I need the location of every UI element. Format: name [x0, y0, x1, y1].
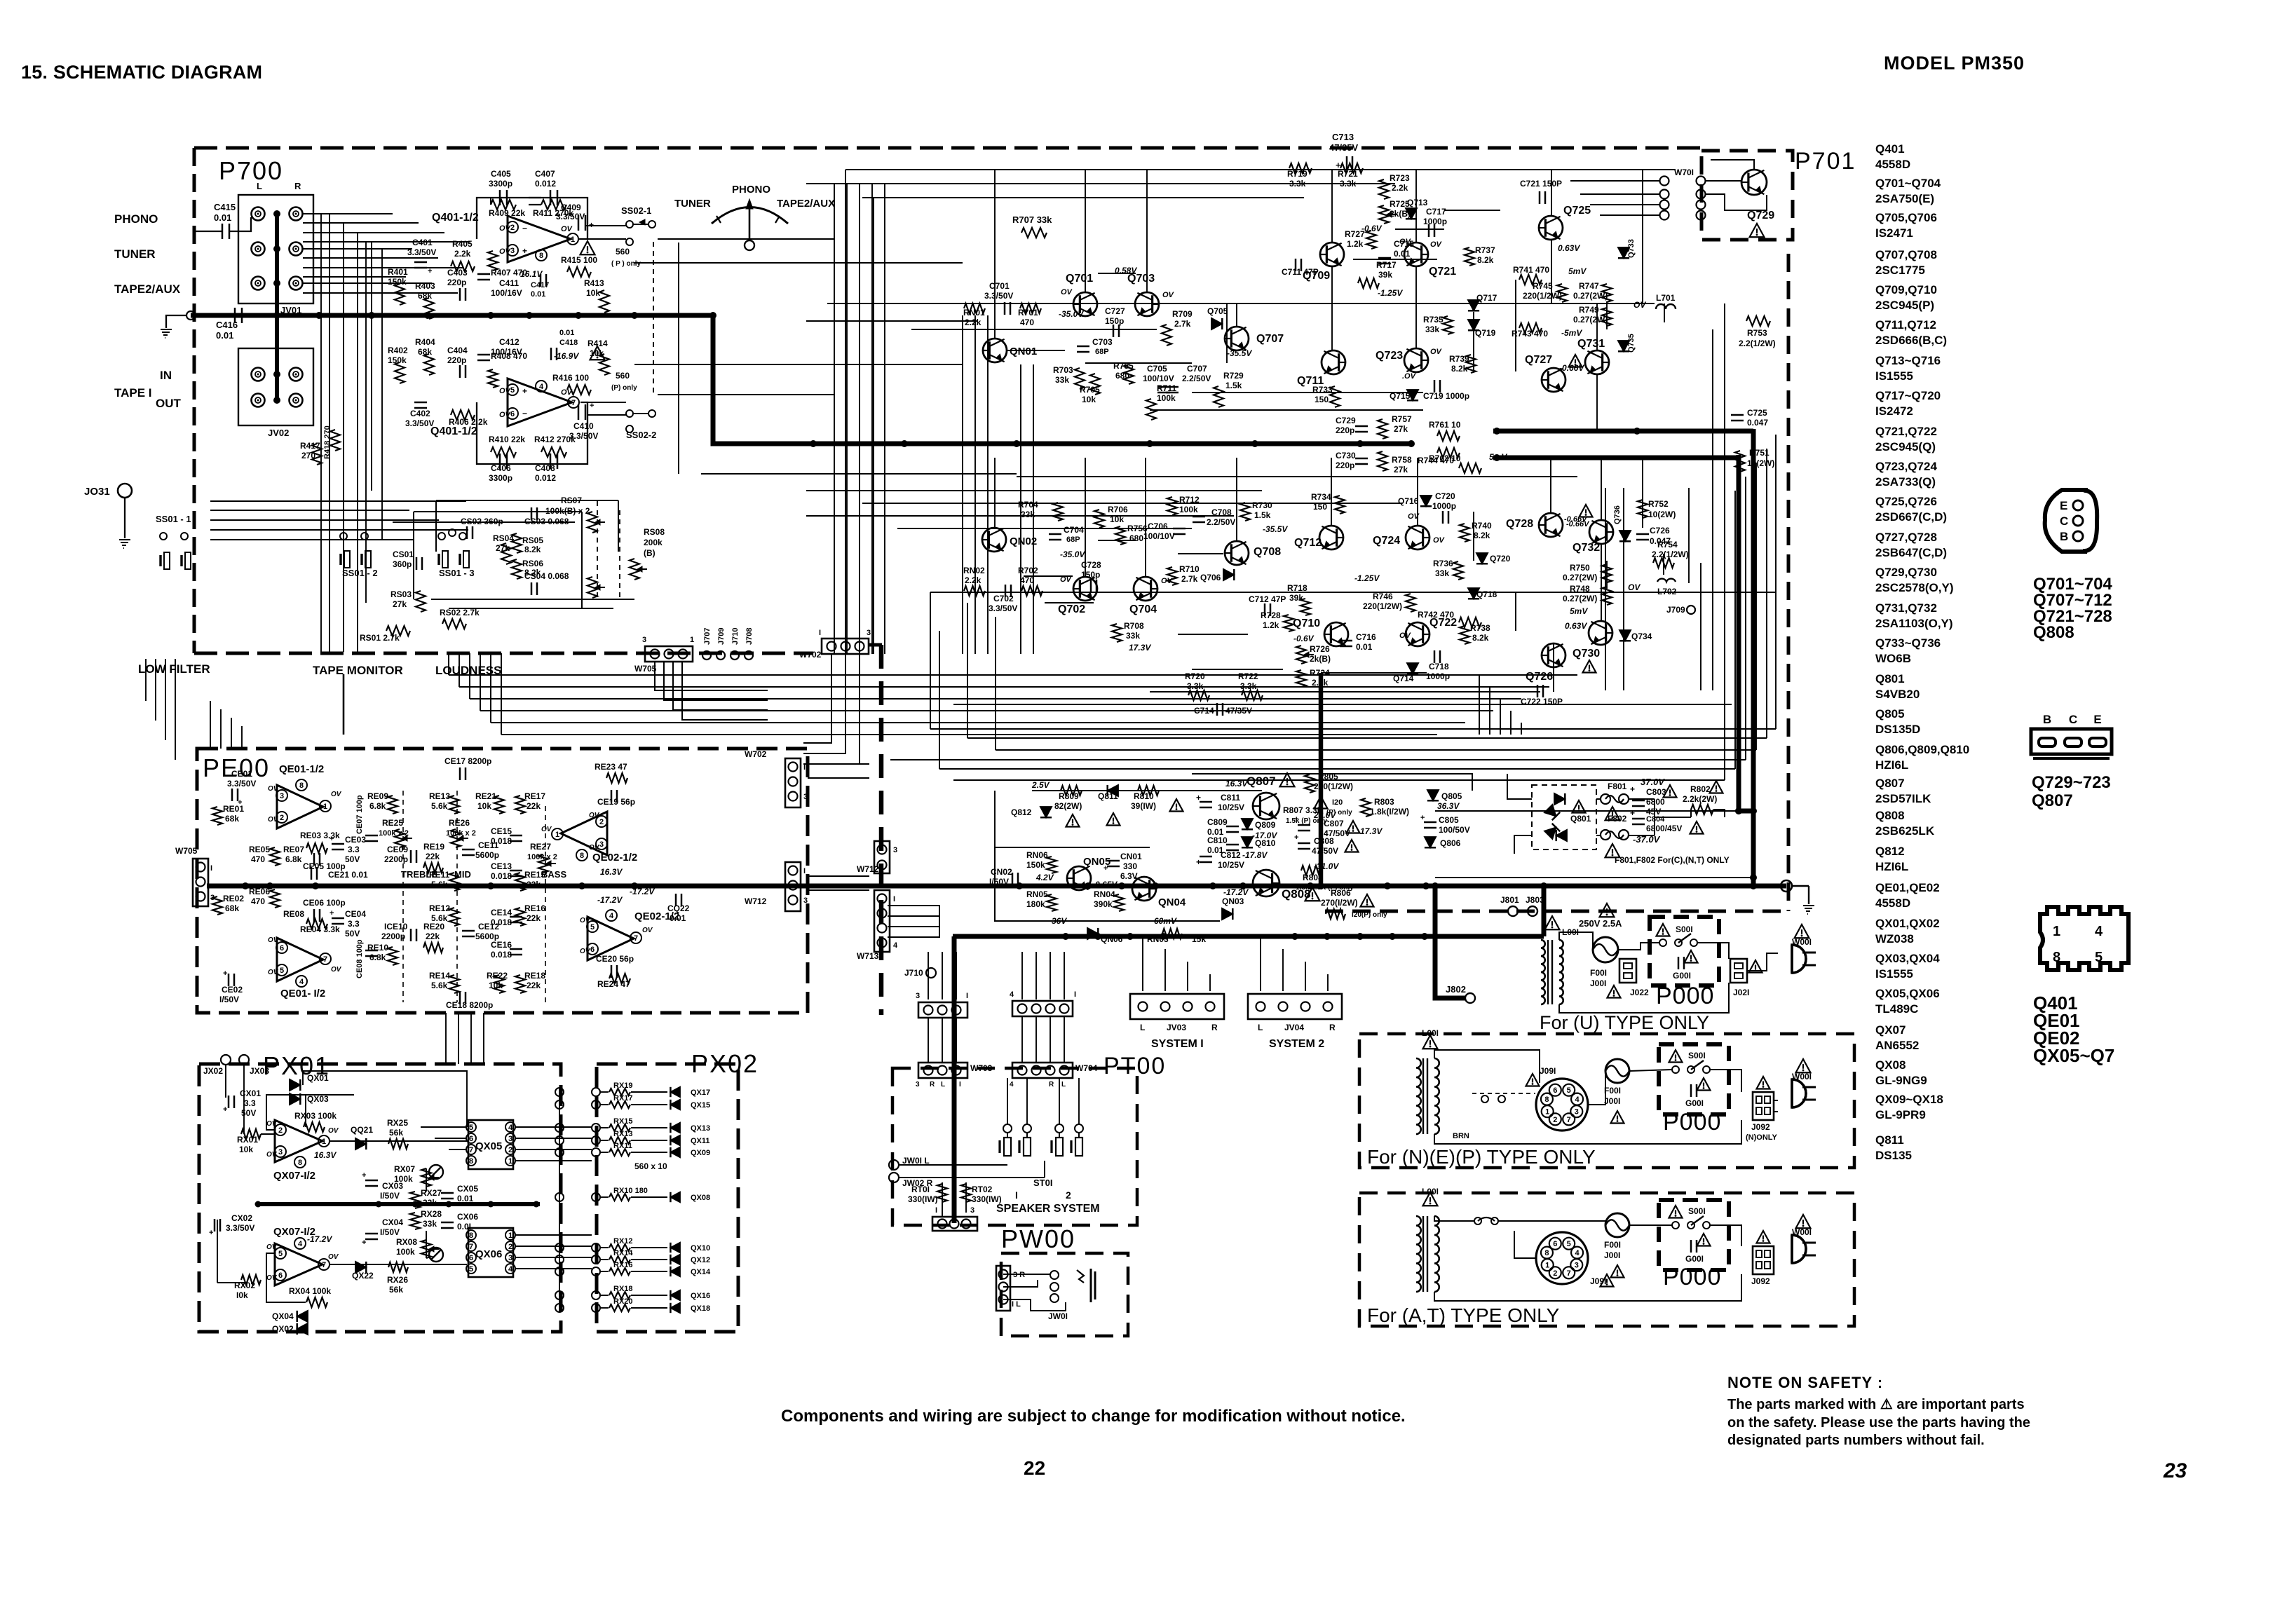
svg-text:3: 3: [803, 793, 808, 801]
svg-text:+: +: [1196, 793, 1201, 803]
P000 box (U): [1650, 917, 1719, 985]
svg-text:2SC2578(O,Y): 2SC2578(O,Y): [1875, 581, 1954, 594]
svg-text:4: 4: [299, 978, 304, 986]
svg-text:1: 1: [508, 1231, 512, 1240]
svg-text:2.2k(2W): 2.2k(2W): [1683, 794, 1717, 804]
svg-text:Q808: Q808: [1875, 809, 1905, 822]
svg-text:10k: 10k: [586, 288, 600, 298]
svg-text:BRN: BRN: [1453, 1132, 1469, 1140]
gang dashed TREBLE: [402, 791, 404, 1002]
connector JW01 L: [889, 1160, 899, 1170]
svg-text:W00I: W00I: [1792, 1072, 1812, 1081]
svg-text:CE14: CE14: [491, 908, 512, 917]
svg-text:QX08: QX08: [691, 1194, 710, 1202]
wire feedback lower: [477, 402, 587, 464]
svg-text:RN03: RN03: [1147, 934, 1169, 944]
svg-text:C810: C810: [1207, 835, 1228, 845]
svg-text:R730: R730: [1252, 500, 1272, 510]
svg-text:8: 8: [1544, 1249, 1549, 1257]
svg-text:Q733: Q733: [1627, 239, 1636, 258]
svg-text:GL-9NG9: GL-9NG9: [1875, 1074, 1927, 1087]
svg-text:100/10V: 100/10V: [1143, 374, 1174, 383]
svg-text:J802: J802: [1446, 984, 1466, 995]
svg-text:TUNER: TUNER: [674, 198, 711, 210]
svg-text:Components and wiring are subj: Components and wiring are subject to cha…: [781, 1407, 1406, 1426]
svg-text:J092: J092: [1751, 1276, 1770, 1286]
svg-text:2.2/50V: 2.2/50V: [1182, 374, 1211, 383]
svg-text:TAPE I: TAPE I: [114, 386, 152, 400]
power section For(A,T) border: [1359, 1193, 1854, 1326]
connector J801 on border: [1508, 906, 1518, 916]
svg-text:S00I: S00I: [1688, 1206, 1706, 1216]
svg-text:68P: 68P: [1066, 535, 1080, 544]
svg-text:+: +: [223, 969, 227, 978]
svg-text:Q722: Q722: [1429, 617, 1457, 629]
svg-text:8: 8: [469, 1231, 473, 1240]
svg-text:2: 2: [1066, 1189, 1071, 1201]
transistor Q731: [1585, 350, 1609, 374]
svg-text:C805: C805: [1439, 815, 1459, 825]
svg-text:3.3k: 3.3k: [1240, 681, 1257, 691]
connector J092 (AT): [1753, 1246, 1774, 1274]
svg-text:6.3V: 6.3V: [1120, 871, 1138, 881]
svg-text:I/50V: I/50V: [380, 1191, 400, 1201]
svg-text:JX03: JX03: [250, 1066, 269, 1076]
svg-text:F801: F801: [1608, 782, 1627, 791]
svg-text:+: +: [1018, 882, 1022, 891]
svg-text:16.3V: 16.3V: [600, 867, 623, 877]
svg-text:RX20: RX20: [613, 1297, 633, 1306]
svg-text:8.2k: 8.2k: [1472, 633, 1489, 643]
wire LOW FILTER bundle left: [145, 659, 147, 701]
svg-text:RN05: RN05: [1026, 889, 1048, 899]
wire PX01 QX06 fan right: [515, 1234, 592, 1236]
svg-text:(P) only: (P) only: [611, 384, 637, 392]
svg-text:C727: C727: [1105, 306, 1125, 316]
wire switch wiring: [1007, 1078, 1008, 1124]
svg-text:22k: 22k: [527, 801, 541, 811]
svg-text:QX06: QX06: [475, 1248, 502, 1260]
svg-text:2SA1103(O,Y): 2SA1103(O,Y): [1875, 617, 1953, 630]
svg-text:J710: J710: [731, 628, 740, 645]
svg-text:6800/45V: 6800/45V: [1646, 824, 1682, 833]
jack field JV01 box: [238, 195, 313, 303]
wire QX05 to trimmers: [426, 1168, 427, 1192]
diode Q736: [1619, 531, 1631, 541]
svg-text:C811: C811: [1221, 793, 1240, 803]
svg-text:5600p: 5600p: [475, 850, 499, 860]
board P701 border: [1702, 151, 1793, 240]
svg-text:Q801: Q801: [1875, 672, 1905, 685]
svg-text:QX04: QX04: [272, 1311, 294, 1321]
svg-text:Q736: Q736: [1613, 505, 1622, 524]
svg-text:RE07: RE07: [283, 845, 304, 854]
svg-text:QX14: QX14: [691, 1268, 711, 1276]
svg-text:R: R: [1211, 1023, 1218, 1032]
svg-text:Q730: Q730: [1573, 648, 1600, 660]
svg-text:OV: OV: [1430, 348, 1443, 356]
svg-text:+: +: [1294, 833, 1298, 842]
transistor package icon TO-92 (EO CO BO): [2045, 490, 2098, 552]
svg-text:Q808: Q808: [2033, 623, 2074, 642]
svg-text:3: 3: [508, 1135, 512, 1143]
bus vertical J802 drop: [1435, 886, 1465, 998]
svg-text:0.01: 0.01: [216, 330, 233, 341]
connector W713 amp-board: [874, 890, 890, 952]
svg-text:3.3/50V: 3.3/50V: [226, 1223, 254, 1233]
connector W705 left: [193, 859, 208, 906]
bus vertical x2202 joining rails: [1542, 886, 1547, 936]
svg-text:OV: OV: [1399, 238, 1412, 246]
svg-text:470: 470: [1020, 575, 1034, 585]
resistor R808 1.5k: [1301, 866, 1321, 875]
warning triangle near R415: [580, 241, 595, 254]
svg-text:+: +: [522, 246, 527, 256]
plug W001 (AT): [1792, 1235, 1806, 1263]
svg-text:10k: 10k: [239, 1145, 253, 1154]
svg-text:CX06: CX06: [457, 1212, 478, 1222]
svg-text:I20(P) only: I20(P) only: [1352, 911, 1387, 919]
svg-text:Q717: Q717: [1476, 293, 1497, 303]
resistor R805 270(1/2W): [1305, 775, 1315, 793]
svg-text:ST0I: ST0I: [1033, 1178, 1052, 1188]
svg-text:OV: OV: [499, 411, 512, 419]
svg-text:100/50V: 100/50V: [1439, 825, 1470, 835]
IC QX06: [468, 1228, 513, 1277]
bus supply dots: [242, 882, 249, 889]
svg-text:L: L: [1061, 1081, 1066, 1089]
svg-text:RE14: RE14: [429, 971, 450, 981]
wire into W701: [1570, 180, 1660, 182]
svg-text:0.018: 0.018: [491, 836, 512, 846]
trim circle RX08: [429, 1248, 443, 1262]
svg-text:R741 470: R741 470: [1513, 265, 1549, 275]
bus speaker line dots: [1062, 933, 1069, 940]
board P700 border top: [194, 146, 1702, 150]
jack field JV02 box: [238, 348, 313, 425]
svg-text:R728: R728: [1261, 610, 1281, 620]
svg-text:6: 6: [278, 1271, 283, 1280]
svg-text:J00I: J00I: [1604, 1096, 1620, 1106]
svg-text:Q707: Q707: [1256, 333, 1284, 345]
svg-text:CX04: CX04: [382, 1217, 403, 1227]
svg-text:Q401: Q401: [1875, 142, 1905, 156]
svg-text:HZI6L: HZI6L: [1875, 860, 1908, 873]
connector J092 (NEP): [1753, 1092, 1774, 1120]
svg-text:QX09: QX09: [691, 1149, 710, 1157]
bus vertical positive rail: [1751, 429, 1756, 886]
svg-text:C809: C809: [1207, 817, 1228, 827]
wire PX01 thick bus: [258, 1202, 540, 1206]
svg-text:3.3: 3.3: [348, 845, 360, 854]
connector JV03: [1130, 994, 1224, 1019]
svg-text:3: 3: [642, 636, 646, 644]
svg-text:33k: 33k: [423, 1219, 437, 1229]
svg-text:R746: R746: [1373, 592, 1393, 601]
connector W702 on P700 border: [822, 639, 869, 654]
pin 2: [507, 221, 518, 233]
svg-text:RS02 2.7k: RS02 2.7k: [440, 608, 480, 617]
svg-text:CX03: CX03: [382, 1181, 403, 1191]
svg-text:QX05: QX05: [475, 1140, 502, 1152]
svg-text:56k: 56k: [389, 1128, 403, 1138]
svg-text:IS2471: IS2471: [1875, 226, 1913, 240]
svg-text:3: 3: [278, 1148, 283, 1156]
bridge diode 4: [1544, 824, 1560, 839]
svg-text:C728: C728: [1081, 560, 1101, 570]
svg-text:R401: R401: [388, 267, 408, 277]
svg-text:Q731,Q732: Q731,Q732: [1875, 601, 1937, 615]
svg-text:1: 1: [1545, 1262, 1549, 1270]
svg-text:OV: OV: [1430, 240, 1443, 249]
svg-text:1: 1: [323, 803, 327, 811]
svg-text:2SA733(Q): 2SA733(Q): [1875, 475, 1936, 489]
svg-text:RX14: RX14: [613, 1249, 633, 1257]
svg-text:560: 560: [616, 247, 630, 257]
svg-text:RN04: RN04: [1094, 889, 1115, 899]
svg-text:0.01: 0.01: [1356, 642, 1373, 652]
svg-text:RX10 180: RX10 180: [613, 1187, 648, 1195]
svg-text:5: 5: [510, 386, 515, 395]
svg-text:Q729,Q730: Q729,Q730: [1875, 566, 1937, 579]
svg-text:RE18: RE18: [524, 971, 545, 981]
wire protect to buses: [994, 791, 996, 847]
svg-text:R737: R737: [1475, 245, 1495, 255]
svg-text:2.2k: 2.2k: [1392, 183, 1408, 193]
svg-text:6: 6: [469, 1254, 473, 1262]
svg-text:1000p: 1000p: [1426, 671, 1450, 681]
svg-text:R709: R709: [1172, 309, 1193, 319]
connector J022: [1619, 959, 1636, 983]
svg-text:+: +: [1420, 814, 1425, 822]
transistor QN02: [982, 528, 1006, 552]
capacitor C807 47/50V: [1298, 824, 1310, 826]
node input ground circle: [186, 311, 195, 320]
wire vertical risers input: [320, 214, 322, 652]
wire PE00 to W702 links: [808, 763, 869, 765]
svg-text:I: I: [803, 867, 806, 875]
op-amp QE01-1/2 lower: [277, 938, 323, 981]
pot gang dashed: [597, 501, 598, 597]
svg-text:J709: J709: [717, 628, 726, 645]
svg-text:2: 2: [1553, 1269, 1557, 1278]
svg-text:OV: OV: [1633, 300, 1646, 310]
board P700 border bottom: [194, 652, 813, 655]
transistor Q711: [1322, 350, 1345, 374]
svg-text:J02I: J02I: [1733, 988, 1749, 997]
svg-text:R734: R734: [1311, 492, 1331, 502]
wire PE00 exit bundle down: [445, 1013, 447, 1064]
svg-text:3300p: 3300p: [489, 179, 512, 189]
svg-text:47/35V: 47/35V: [1329, 142, 1359, 153]
svg-text:S00I: S00I: [1676, 924, 1693, 934]
svg-text:R729: R729: [1223, 371, 1244, 381]
svg-text:C407: C407: [535, 169, 555, 179]
svg-text:DS135: DS135: [1875, 1149, 1912, 1162]
svg-text:L: L: [1140, 1023, 1145, 1032]
svg-text:330(IW): 330(IW): [908, 1194, 938, 1204]
wire switch rows: [210, 500, 466, 502]
svg-text:SS01 - 1: SS01 - 1: [156, 514, 191, 524]
svg-text:Q731: Q731: [1577, 338, 1605, 350]
svg-text:R740: R740: [1472, 521, 1492, 531]
svg-text:RX07: RX07: [394, 1164, 415, 1174]
QX07 pins: [275, 1124, 286, 1135]
svg-text:OV: OV: [268, 969, 279, 976]
svg-text:1: 1: [690, 636, 694, 644]
svg-text:C412: C412: [499, 337, 519, 347]
svg-text:OV: OV: [266, 1274, 278, 1282]
svg-text:IS2472: IS2472: [1875, 404, 1913, 418]
svg-text:5mV: 5mV: [1568, 266, 1587, 276]
connector PW00 3pin: [996, 1266, 1010, 1311]
svg-text:P701: P701: [1795, 148, 1856, 175]
svg-text:OV: OV: [1433, 536, 1446, 545]
svg-text:3: 3: [970, 1206, 974, 1215]
svg-text:Q805: Q805: [1875, 707, 1905, 721]
op-amp Q401-1/2 upper: [508, 216, 571, 262]
svg-text:TAPE MONITOR: TAPE MONITOR: [313, 664, 403, 677]
wire right bundle verticals down: [1479, 675, 1480, 735]
wire amp area verticals right: [1738, 455, 1739, 811]
svg-text:-16.9V: -16.9V: [554, 351, 579, 361]
diode Q735: [1618, 341, 1629, 351]
wire JV connector risers: [1142, 936, 1143, 991]
svg-text:CE20 56p: CE20 56p: [596, 954, 634, 964]
transistor Q707: [1225, 327, 1249, 350]
svg-text:-17.8V: -17.8V: [1242, 850, 1268, 860]
headphone jack symbol: [1050, 1271, 1059, 1279]
svg-text:R: R: [294, 181, 301, 191]
wire JW02 line: [899, 1177, 1045, 1178]
svg-text:OV: OV: [268, 785, 279, 793]
svg-text:0.27(2W): 0.27(2W): [1563, 594, 1597, 603]
IC QX05: [468, 1120, 513, 1169]
row resistor RX17 diode QX15: [555, 1100, 564, 1109]
svg-text:-1.25V: -1.25V: [1354, 573, 1380, 583]
svg-text:2: 2: [278, 1126, 283, 1135]
svg-text:16.3V: 16.3V: [314, 1150, 337, 1160]
svg-text:PT00: PT00: [1103, 1053, 1166, 1079]
svg-text:6.8k: 6.8k: [369, 801, 386, 811]
svg-text:3: 3: [599, 840, 604, 849]
svg-text:2200p: 2200p: [381, 932, 405, 941]
transistor Q702: [1073, 577, 1097, 601]
svg-text:Q727: Q727: [1525, 354, 1552, 366]
svg-text:W705: W705: [634, 664, 657, 674]
wire NEP selector dashes: [1472, 1093, 1535, 1094]
svg-text:3.3/50V: 3.3/50V: [569, 431, 598, 441]
svg-text:R754: R754: [1657, 540, 1678, 550]
svg-text:PW00: PW00: [1001, 1224, 1075, 1253]
svg-text:C405: C405: [491, 169, 511, 179]
svg-text:CE02: CE02: [222, 985, 243, 995]
connector J021: [1730, 959, 1747, 983]
voltage selector J091 (NEP): [1536, 1079, 1588, 1131]
svg-text:Q711,Q712: Q711,Q712: [1875, 318, 1936, 332]
svg-text:C415: C415: [214, 202, 236, 212]
svg-text:-0.6V: -0.6V: [1293, 634, 1315, 643]
svg-text:I: I: [1074, 990, 1076, 999]
svg-text:C707: C707: [1187, 364, 1207, 374]
svg-text:RE27: RE27: [530, 842, 551, 852]
diode Q805: [1427, 790, 1439, 800]
svg-text:J09I: J09I: [1590, 1276, 1606, 1286]
svg-text:CE21 0.01: CE21 0.01: [328, 870, 368, 880]
wire right nest verticals: [1775, 435, 1777, 729]
op-amp QE02-1/2 upper: [561, 812, 607, 855]
bus vertical speaker feed x1884: [1319, 673, 1324, 886]
board P700 border left: [193, 148, 196, 653]
svg-text:RE16: RE16: [524, 903, 545, 913]
svg-text:0.01: 0.01: [559, 329, 574, 337]
svg-text:2SD667(C,D): 2SD667(C,D): [1875, 510, 1947, 524]
svg-text:R757: R757: [1392, 414, 1412, 424]
svg-text:Q806: Q806: [1440, 838, 1461, 848]
svg-text:39k: 39k: [1289, 593, 1303, 603]
svg-text:3: 3: [508, 1254, 512, 1262]
svg-text:33k: 33k: [1435, 568, 1449, 578]
svg-text:250V 2.5A: 250V 2.5A: [1579, 918, 1622, 929]
QE01 lower pins: [276, 942, 287, 953]
diode QN06: [1087, 928, 1098, 939]
fuse F001 (NEP): [1605, 1059, 1629, 1083]
svg-text:R416 100: R416 100: [552, 373, 589, 383]
svg-text:CE06 100p: CE06 100p: [303, 898, 346, 908]
svg-text:QX13: QX13: [691, 1124, 710, 1133]
svg-text:SYSTEM 2: SYSTEM 2: [1269, 1038, 1324, 1050]
svg-text:1.2k: 1.2k: [1263, 620, 1279, 630]
svg-text:CE09: CE09: [387, 845, 408, 854]
svg-text:-17.2V: -17.2V: [1223, 887, 1249, 897]
svg-text:TAPE2/AUX: TAPE2/AUX: [777, 198, 835, 210]
svg-text:3: 3: [510, 247, 515, 255]
svg-text:OUT: OUT: [156, 397, 182, 410]
svg-text:RE25: RE25: [382, 818, 403, 828]
row resistor RX14 diode QX12: [555, 1255, 564, 1264]
svg-text:+: +: [1294, 815, 1298, 824]
svg-text:I/50V: I/50V: [380, 1227, 400, 1237]
PX01 bus dots: [255, 1201, 261, 1208]
svg-text:Q735: Q735: [1627, 334, 1636, 353]
svg-text:27k: 27k: [393, 599, 407, 609]
wire amp interconnects lower: [1085, 458, 1086, 576]
ground at input: [161, 329, 172, 330]
wire protect box top: [995, 847, 1150, 848]
svg-text:C401: C401: [412, 238, 433, 247]
wire W702 pins down to PE00: [803, 654, 831, 743]
svg-text:5: 5: [280, 967, 284, 975]
svg-text:R415 100: R415 100: [561, 255, 597, 265]
svg-text:L: L: [941, 1081, 945, 1089]
fuse link (AT): [1474, 1217, 1481, 1224]
svg-text:0.65V: 0.65V: [1095, 880, 1118, 889]
svg-text:5mV: 5mV: [1489, 452, 1507, 462]
svg-text:RS06: RS06: [522, 559, 543, 568]
wire protect inner rail: [1032, 790, 1262, 791]
svg-text:10k: 10k: [1082, 395, 1096, 404]
svg-text:RE05: RE05: [249, 845, 270, 854]
svg-text:I: I: [1015, 1189, 1018, 1201]
svg-text:Q723: Q723: [1376, 350, 1403, 362]
svg-text:J709: J709: [1666, 605, 1685, 615]
meter needle: [749, 205, 751, 240]
op-amp QE02-1/2 lower: [587, 917, 634, 960]
bridge rectifier Q801 dashed box: [1532, 785, 1596, 849]
svg-text:5: 5: [469, 1124, 473, 1132]
bus junction dots upper: [273, 312, 280, 319]
svg-text:8: 8: [299, 782, 304, 790]
